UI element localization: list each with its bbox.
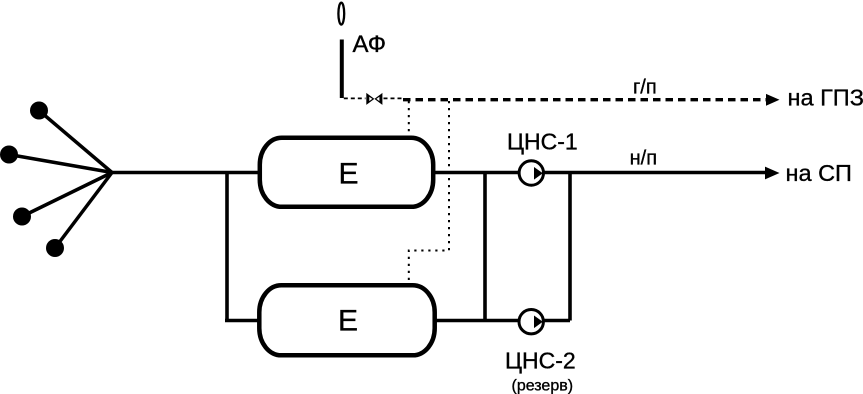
svg-text:ЦНС-2: ЦНС-2 — [505, 348, 576, 374]
svg-text:Е: Е — [338, 305, 358, 338]
svg-text:н/п: н/п — [630, 148, 657, 170]
svg-text:АФ: АФ — [353, 31, 386, 58]
svg-text:(резерв): (резерв) — [512, 378, 574, 394]
svg-text:на СП: на СП — [786, 160, 852, 186]
svg-text:ЦНС-1: ЦНС-1 — [507, 129, 578, 155]
svg-text:г/п: г/п — [633, 77, 657, 99]
svg-text:Е: Е — [338, 157, 358, 190]
svg-text:на ГПЗ: на ГПЗ — [788, 85, 863, 111]
